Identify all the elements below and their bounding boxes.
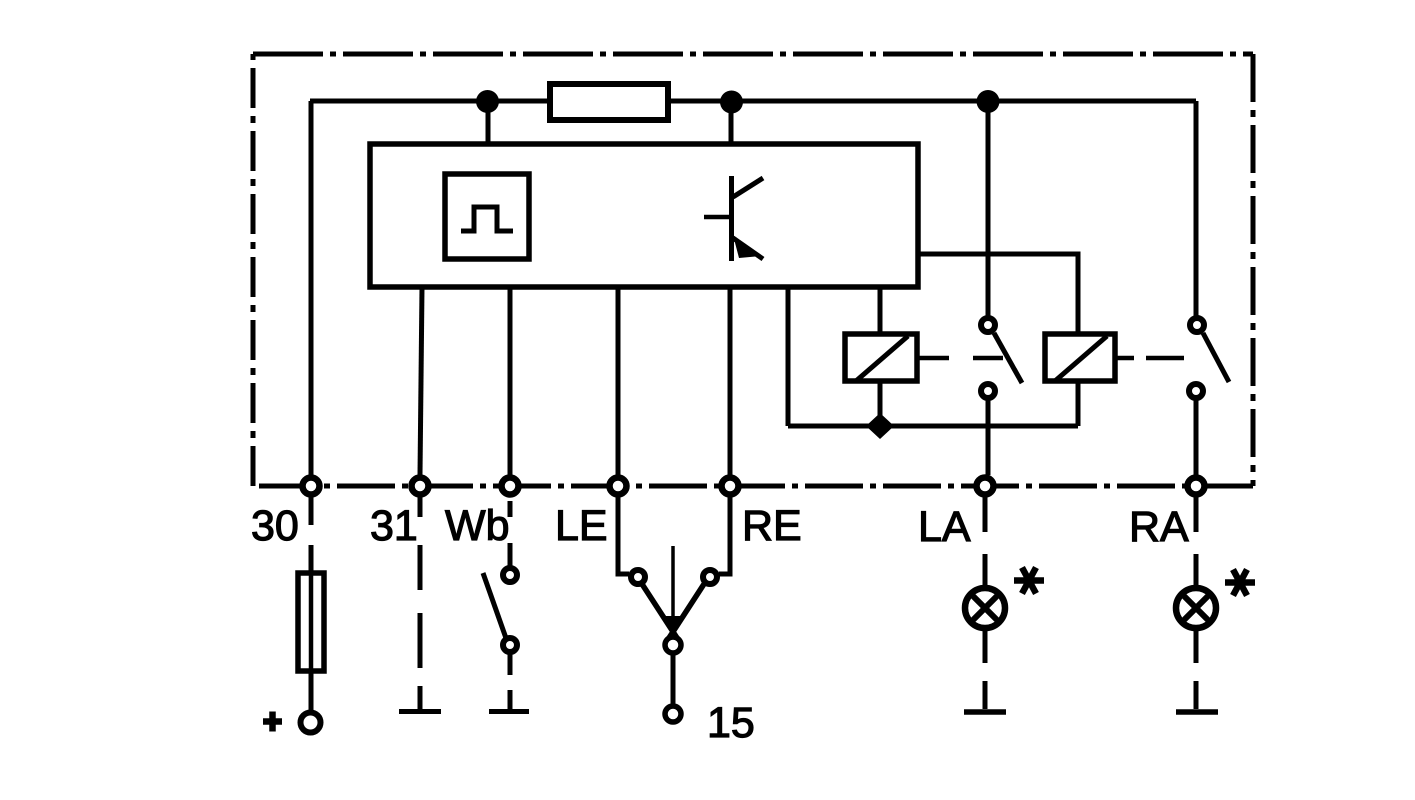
junction dot C	[977, 90, 1000, 113]
wire: switch pole to 15	[671, 654, 676, 704]
ground under Wb	[489, 654, 529, 712]
op-amp U1 (flasher IC box)	[370, 144, 918, 287]
relay enclosure dash-dot border	[253, 54, 1253, 486]
battery plus node	[301, 713, 321, 733]
junction dot A	[476, 90, 499, 113]
relay coil K1	[845, 334, 917, 381]
ground under 31 (dashed lead)	[399, 497, 441, 712]
wire: RA terminal to lamp	[1194, 497, 1199, 586]
junction dot B	[720, 91, 743, 114]
ground under LA lamp	[964, 629, 1006, 712]
lamp left (LA)	[965, 588, 1005, 628]
mechanical link K2 to S2 (dashed)	[1115, 356, 1184, 361]
wire: IC to terminal Wb	[508, 287, 513, 475]
terminal Wb	[502, 478, 519, 495]
wiper switch under Wb	[483, 501, 517, 652]
node 15 circle	[665, 706, 681, 722]
svg-text:15: 15	[707, 699, 755, 747]
top supply wire (node 49/top rail)	[310, 99, 1196, 104]
wire: S2 to terminal RA	[1194, 399, 1199, 475]
mechanical link K1 to S1 (dashed)	[917, 356, 1003, 361]
wire: S1 to terminal LA	[986, 399, 991, 475]
terminal RA	[1188, 478, 1205, 495]
wire: relay K2 coil bottom	[1076, 381, 1081, 426]
svg-text:LE: LE	[555, 502, 608, 550]
wire: dot C down to switch S1	[986, 101, 991, 317]
wire: fuse to battery plus	[309, 671, 314, 710]
resistor R1	[550, 84, 668, 120]
label LE	[555, 502, 608, 550]
terminal RE	[722, 478, 739, 495]
junction dot D	[866, 413, 894, 439]
wire: IC bottom left leg	[786, 287, 791, 426]
fuse F1	[298, 573, 324, 671]
switch contact S1	[981, 318, 1022, 398]
wire: terminal 30 riser	[309, 101, 314, 475]
wire: IC bottom to relay K1 coil	[878, 287, 883, 334]
pulse generator symbol (square wave box)	[445, 174, 529, 259]
label 31	[370, 502, 418, 550]
asterisk left	[1014, 568, 1044, 594]
label RA	[1129, 503, 1189, 551]
label 30	[251, 502, 299, 550]
wire: right rail down to switch S2	[1194, 101, 1199, 317]
wire: terminal 30 to fuse	[309, 497, 314, 573]
svg-text:RE: RE	[742, 502, 802, 550]
lamp right (RA)	[1176, 588, 1216, 628]
label Wb	[445, 502, 510, 550]
label 15	[707, 699, 755, 747]
wire: relay K1 coil to junction D	[878, 381, 883, 426]
svg-text:LA: LA	[918, 503, 971, 551]
terminal 30	[303, 478, 320, 495]
wire: LA terminal to lamp	[983, 497, 988, 586]
wire: IC to terminal RE	[728, 287, 733, 475]
plus sign	[263, 712, 282, 732]
wire: IC to terminal 31	[420, 287, 422, 475]
wire: dot B to IC top	[729, 101, 734, 144]
terminal 31	[412, 478, 429, 495]
transistor Q1	[704, 176, 763, 261]
wire: dot A to IC top	[486, 101, 491, 144]
wire: IC to terminal LE	[616, 287, 621, 475]
svg-text:31: 31	[370, 502, 418, 550]
wire: bottom return rail	[788, 424, 1078, 429]
wire: IC right output to relay K2	[918, 254, 1078, 334]
turn signal switch (changeover LE/RE)	[618, 497, 730, 653]
svg-text:RA: RA	[1129, 503, 1189, 551]
label LA	[918, 503, 971, 551]
svg-text:Wb: Wb	[445, 502, 510, 550]
switch contact S2	[1189, 318, 1229, 398]
asterisk right	[1225, 570, 1255, 596]
svg-text:30: 30	[251, 502, 299, 550]
terminal LE	[610, 478, 627, 495]
ground under RA lamp	[1176, 629, 1218, 712]
label RE	[742, 502, 802, 550]
terminal LA	[977, 478, 994, 495]
relay coil K2	[1045, 334, 1115, 381]
